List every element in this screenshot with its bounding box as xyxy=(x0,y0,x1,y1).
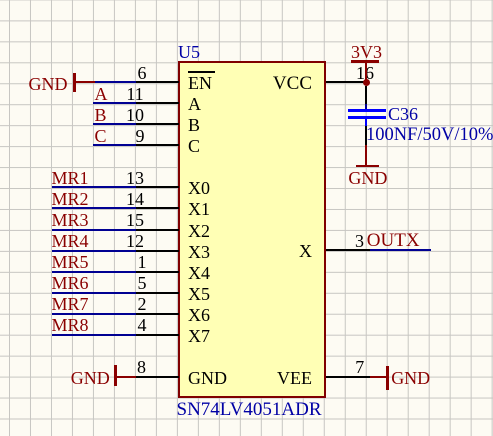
pin 8 GND of U5 xyxy=(0,0,1,1)
pin 9 C of U5 xyxy=(0,0,1,1)
junction node VCC / C36 / 3V3 xyxy=(363,79,370,86)
net label OUTX xyxy=(367,232,420,249)
wire net MR2 xyxy=(52,207,136,209)
capacitor C36 xyxy=(0,0,1,1)
wire net OUTX xyxy=(370,249,432,251)
pin 11 A of U5 xyxy=(0,0,1,1)
net label MR5 xyxy=(52,254,89,271)
pin 5 X5 of U5 xyxy=(0,0,1,1)
wire blue stub above C36 xyxy=(365,104,367,110)
pin 4 X7 of U5 xyxy=(0,0,1,1)
pin 12 X3 of U5 xyxy=(0,0,1,1)
net label A xyxy=(95,86,108,103)
wire net MR4 xyxy=(52,250,136,252)
net label MR8 xyxy=(52,317,89,334)
pin 3 X of U5 xyxy=(0,0,1,1)
pin 7 VEE of U5 xyxy=(0,0,1,1)
wire net MR8 xyxy=(52,334,136,336)
designator C36 xyxy=(388,106,418,123)
net label MR1 xyxy=(52,170,89,187)
power port GND bottom-left xyxy=(0,0,1,1)
net label MR4 xyxy=(52,233,89,250)
wire net GND below capacitor xyxy=(365,126,367,145)
wire net A xyxy=(93,102,136,104)
net label MR2 xyxy=(52,191,89,208)
wire net C xyxy=(93,144,136,146)
net label B xyxy=(95,107,107,124)
value label 100NF/50V/10% xyxy=(366,127,493,144)
net label MR6 xyxy=(52,275,89,292)
power port GND below capacitor xyxy=(0,0,1,1)
pin 14 X1 of U5 xyxy=(0,0,1,1)
net label MR3 xyxy=(52,212,89,229)
power port GND top-left xyxy=(0,0,1,1)
pin 15 X2 of U5 xyxy=(0,0,1,1)
pin 16 VCC of U5 xyxy=(0,0,1,1)
wire from junction down to C36 xyxy=(365,86,367,104)
wire net B xyxy=(93,123,136,125)
wire net MR7 xyxy=(52,313,136,315)
designator U5 xyxy=(178,44,200,61)
pin 13 X0 of U5 xyxy=(0,0,1,1)
pin 2 X6 of U5 xyxy=(0,0,1,1)
wire net GND pin6 xyxy=(95,81,136,83)
IC U5 body (SN74LV4051 analog mux) xyxy=(178,61,326,398)
wire net MR1 xyxy=(52,186,136,188)
pin 10 B of U5 xyxy=(0,0,1,1)
wire net MR6 xyxy=(52,292,136,294)
power port 3V3 xyxy=(0,0,1,1)
power port GND right of VEE xyxy=(0,0,1,1)
net label C xyxy=(95,128,107,145)
pin 1 X4 of U5 xyxy=(0,0,1,1)
comment SN74LV4051ADR xyxy=(177,401,322,418)
wire net MR5 xyxy=(52,271,136,273)
net label MR7 xyxy=(52,296,89,313)
wire net MR3 xyxy=(52,229,136,231)
pin 6 EN of U5 xyxy=(0,0,1,1)
